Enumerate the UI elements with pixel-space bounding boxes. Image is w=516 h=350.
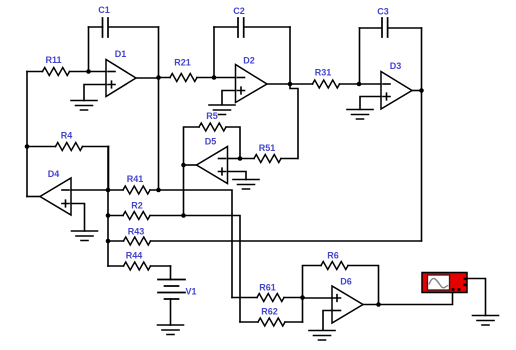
- wire scope to ground: [467, 279, 486, 316]
- resistor R2: [108, 201, 184, 220]
- wire R51 up to D2 output: [290, 84, 298, 159]
- wire R4 right leg down to D4 minus row: [108, 147, 110, 191]
- svg-text:D5: D5: [205, 137, 217, 147]
- wire D2 output: [267, 83, 290, 85]
- svg-text:D6: D6: [340, 277, 352, 287]
- svg-text:D4: D4: [48, 169, 60, 179]
- svg-text:R51: R51: [259, 143, 276, 153]
- wire C3 right leg: [421, 28, 423, 91]
- wire D5 output: [184, 164, 197, 166]
- resistor R21: [159, 58, 215, 82]
- ground D5: [233, 180, 259, 190]
- resistor R43: [108, 227, 422, 246]
- wire left rail: [26, 72, 28, 197]
- node R2 / D5 column: [181, 213, 186, 218]
- svg-text:R11: R11: [45, 55, 61, 65]
- svg-text:R61: R61: [259, 283, 276, 293]
- wire D3 output loop down to R43 row: [421, 91, 423, 242]
- node D6 plus summing: [300, 295, 305, 300]
- capacitor C2: [214, 6, 290, 37]
- op-amp D2: [236, 56, 268, 103]
- svg-text:C2: C2: [233, 6, 245, 16]
- wire R41 row over to R61 column: [159, 190, 233, 298]
- wire D5 minus input: [228, 158, 241, 160]
- node D2 output: [288, 82, 293, 87]
- wire D6 minus input: [323, 311, 332, 331]
- resistor R51: [240, 143, 298, 163]
- wire D3 minus input: [359, 83, 381, 85]
- svg-text:R44: R44: [126, 251, 143, 261]
- wire R44 to battery: [170, 266, 172, 280]
- op-amp D4: [40, 169, 71, 215]
- wire D1 plus input: [84, 85, 106, 101]
- ground D2: [209, 105, 235, 115]
- wire D4 plus input: [71, 204, 85, 232]
- node D1 output: [156, 75, 161, 80]
- svg-text:R21: R21: [174, 58, 191, 68]
- ground V1: [158, 325, 184, 335]
- op-amp D1: [106, 49, 136, 97]
- node D5 minus / R5 / R51: [238, 156, 243, 161]
- svg-text:V1: V1: [186, 287, 197, 297]
- battery V1: [158, 280, 197, 326]
- svg-text:R41: R41: [127, 174, 144, 184]
- wire D5 plus input: [228, 172, 247, 180]
- wire D2 minus input: [214, 77, 236, 79]
- wire D6 plus input: [303, 297, 333, 299]
- resistor R31: [290, 68, 359, 89]
- svg-text:R4: R4: [61, 131, 73, 141]
- wire D1 output: [136, 77, 159, 79]
- resistor R41: [108, 174, 159, 194]
- node D5 output: [181, 163, 186, 168]
- wire C2 right leg: [289, 27, 291, 84]
- svg-text:R43: R43: [128, 227, 145, 237]
- wire D3 output: [412, 90, 422, 92]
- node R11/C1/D1: [86, 69, 91, 74]
- ground D1: [71, 101, 97, 111]
- resistor R11: [27, 55, 89, 76]
- capacitor C3: [360, 7, 422, 38]
- resistor R5: [184, 111, 241, 165]
- svg-text:R2: R2: [131, 201, 143, 211]
- wire D1 minus input: [89, 71, 107, 73]
- wire D6 output: [363, 304, 379, 306]
- svg-text:R5: R5: [206, 111, 218, 121]
- ground D6: [309, 331, 335, 341]
- svg-text:D1: D1: [115, 49, 127, 59]
- svg-text:C3: C3: [377, 7, 389, 17]
- op-amp D5: [197, 137, 228, 184]
- ground D3: [347, 110, 373, 120]
- resistor R6: [303, 251, 379, 305]
- svg-text:D2: D2: [243, 56, 255, 66]
- wire D4 output: [27, 196, 40, 198]
- wire C1 left leg: [88, 27, 90, 72]
- ground D4: [72, 231, 98, 241]
- wire D6 output to scope: [379, 293, 453, 305]
- wire middle rail: [107, 147, 109, 267]
- svg-text:R31: R31: [315, 68, 332, 78]
- wire D5 output down to R2 row: [183, 165, 185, 216]
- wire D2 plus input: [222, 91, 236, 105]
- node left rail / R4: [25, 144, 30, 149]
- oscilloscope XSC1: [422, 273, 468, 293]
- node R41 right: [156, 188, 161, 193]
- svg-text:R62: R62: [261, 307, 278, 317]
- wire C1 right leg / D1 output column down to R41: [158, 27, 160, 190]
- node R21/C2/D2: [212, 75, 217, 80]
- node D3 output: [419, 88, 424, 93]
- op-amp D6: [332, 277, 363, 324]
- wire D4 minus input: [71, 189, 108, 191]
- resistor R44: [108, 251, 171, 271]
- node R2 left: [106, 213, 111, 218]
- node R31/C3/D3: [357, 82, 362, 87]
- node R43 left: [106, 239, 111, 244]
- op-amp D3: [381, 61, 412, 109]
- svg-text:D3: D3: [390, 61, 402, 71]
- wire R62 up to summing node: [302, 298, 304, 323]
- resistor R4: [27, 131, 109, 151]
- node D6 output: [376, 302, 381, 307]
- svg-text:C1: C1: [98, 5, 110, 15]
- wire D3 plus input: [360, 97, 381, 110]
- node D4 minus / R41: [106, 188, 111, 193]
- resistor R62: [240, 307, 303, 327]
- resistor R61: [232, 283, 303, 302]
- capacitor C1: [89, 5, 159, 37]
- ground scope: [473, 316, 499, 326]
- svg-text:R6: R6: [327, 251, 339, 261]
- wire R2 row over to R62 column: [184, 216, 241, 323]
- wire C2 left leg: [213, 27, 215, 78]
- wire C3 left leg: [359, 28, 361, 84]
